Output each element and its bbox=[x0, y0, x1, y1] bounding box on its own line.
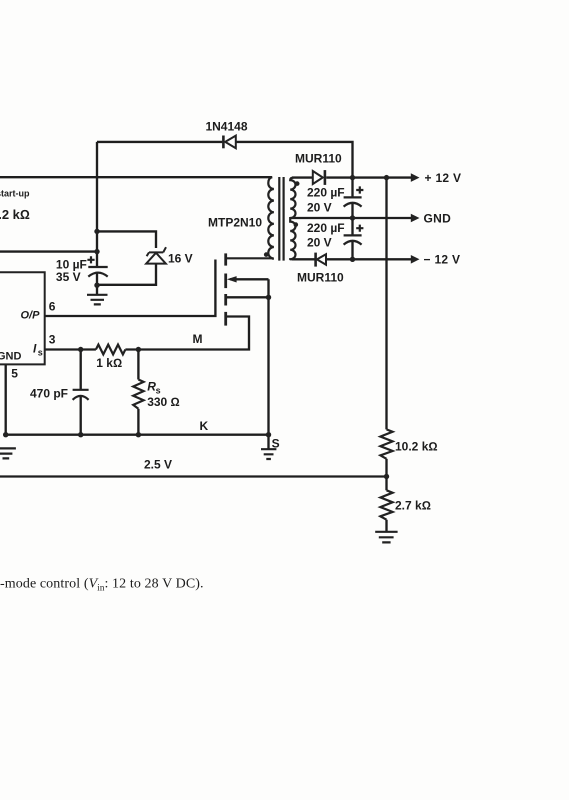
svg-text:MTP2N10: MTP2N10 bbox=[208, 216, 262, 230]
svg-text:1N4148: 1N4148 bbox=[205, 120, 247, 134]
svg-text:I: I bbox=[33, 341, 37, 355]
svg-text:16 V: 16 V bbox=[168, 252, 193, 266]
svg-text:K: K bbox=[200, 419, 209, 433]
svg-text:MUR110: MUR110 bbox=[297, 271, 344, 285]
svg-text:M: M bbox=[193, 332, 203, 346]
svg-text:MUR110: MUR110 bbox=[295, 152, 342, 166]
svg-text:330 Ω: 330 Ω bbox=[147, 395, 180, 409]
svg-text:35 V: 35 V bbox=[56, 270, 81, 284]
svg-text:start-up: start-up bbox=[0, 188, 30, 198]
svg-text:1 kΩ: 1 kΩ bbox=[96, 356, 122, 370]
svg-text:2.2 kΩ: 2.2 kΩ bbox=[0, 207, 30, 222]
svg-text:20 V: 20 V bbox=[307, 201, 332, 215]
svg-text:GND: GND bbox=[0, 350, 22, 362]
svg-text:10.2 kΩ: 10.2 kΩ bbox=[395, 440, 438, 454]
svg-text:2.7 kΩ: 2.7 kΩ bbox=[395, 499, 431, 513]
svg-text:-mode control (Vin: 12 to 28 V: -mode control (Vin: 12 to 28 V DC). bbox=[0, 577, 204, 593]
svg-text:O/P: O/P bbox=[21, 310, 41, 322]
svg-text:20 V: 20 V bbox=[307, 236, 332, 250]
svg-text:220 µF: 220 µF bbox=[307, 221, 345, 235]
svg-text:2.5 V: 2.5 V bbox=[144, 458, 172, 472]
svg-text:6: 6 bbox=[49, 300, 56, 314]
svg-text:− 12 V: − 12 V bbox=[424, 253, 461, 267]
svg-text:3: 3 bbox=[49, 333, 56, 347]
svg-text:220 µF: 220 µF bbox=[307, 186, 345, 200]
svg-text:5: 5 bbox=[11, 367, 18, 381]
svg-text:s: s bbox=[38, 348, 43, 358]
svg-text:470 pF: 470 pF bbox=[30, 387, 68, 401]
svg-text:+ 12 V: + 12 V bbox=[425, 171, 462, 185]
svg-text:S: S bbox=[272, 437, 280, 451]
svg-text:GND: GND bbox=[424, 211, 452, 225]
